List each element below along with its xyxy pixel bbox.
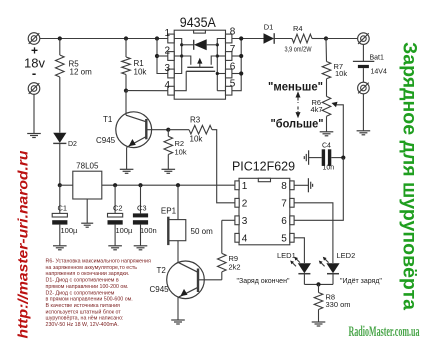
resistor R4 (292, 34, 326, 43)
label Bat1 (370, 55, 385, 62)
node source bus (155, 36, 159, 40)
node internal source diode (180, 43, 183, 46)
svg-text:T2: T2 (157, 266, 167, 275)
svg-text:8: 8 (230, 27, 236, 38)
wire pin8 ground (294, 184, 308, 186)
svg-text:LED2: LED2 (337, 251, 356, 260)
node internal source fet (180, 54, 183, 57)
wire pin5 to LED1 (294, 238, 304, 263)
wire T2 emitter to ground (177, 297, 179, 320)
svg-text:100µ: 100µ (61, 226, 79, 235)
svg-text:10n: 10n (323, 165, 335, 172)
label LED1 (277, 251, 296, 260)
wire led rail (304, 283, 333, 285)
svg-text:LED1: LED1 (277, 251, 296, 260)
node internal drain pin6 (216, 72, 219, 75)
wire drain bus (232, 39, 264, 91)
svg-text:C945: C945 (96, 136, 116, 145)
wire +5V rail (102, 184, 235, 186)
svg-text:C945: C945 (150, 285, 170, 294)
svg-text:RadioMaster.com.ua: RadioMaster.com.ua (349, 324, 420, 340)
label C2 value (116, 226, 134, 235)
node drain pin8 (239, 36, 243, 40)
ground R8 (312, 322, 326, 326)
svg-text:100n: 100n (140, 226, 157, 235)
transistor T1 (116, 112, 152, 148)
node R5 top (58, 36, 62, 40)
label idyot zaryad (340, 278, 382, 285)
diode D1 (264, 33, 293, 44)
node drain pin7 (239, 54, 243, 58)
ground C4 sideways (304, 150, 308, 165)
label R4 (293, 24, 303, 33)
svg-text:PIC12F629: PIC12F629 (232, 159, 295, 174)
svg-text:C4: C4 (322, 143, 331, 150)
output terminal bottom (358, 82, 370, 94)
resistor R2 (164, 130, 173, 170)
svg-text:D2- Диод с сопротивлением: D2- Диод с сопротивлением (46, 290, 115, 296)
svg-text:10k: 10k (175, 148, 187, 157)
label EP1 (161, 207, 177, 216)
wire T1 collector (125, 91, 127, 116)
label EP1 value (191, 227, 214, 236)
resistor R8 (314, 284, 323, 322)
svg-text:14V4: 14V4 (371, 69, 387, 76)
svg-text:230V-50 Hz 18 W, 12V-400mA.: 230V-50 Hz 18 W, 12V-400mA. (46, 322, 119, 328)
svg-text:на заряженном аккумуляторе,то: на заряженном аккумуляторе,то есть (46, 265, 138, 271)
ic PIC12F629 body (239, 178, 290, 245)
svg-text:T1: T1 (103, 115, 113, 124)
label R3 (190, 116, 204, 144)
node led rail (316, 282, 320, 286)
svg-text:2k2: 2k2 (229, 263, 241, 272)
node C3 (138, 183, 142, 187)
mosfet symbol 9435A (182, 56, 218, 71)
node internal drain diode (216, 43, 219, 46)
pin 5 PIC (281, 233, 294, 244)
resistor R6 potentiometer (322, 96, 331, 131)
label C1 value (61, 226, 79, 235)
label PIC12F629 (232, 159, 295, 174)
svg-text:7: 7 (230, 44, 236, 55)
title text (399, 42, 420, 310)
pin 6 PIC (281, 216, 294, 227)
node 78L05 input (58, 183, 62, 187)
wire 9435A source rail (174, 39, 182, 74)
svg-text:"Заряд окончен": "Заряд окончен" (237, 278, 290, 285)
ground pin8 sideways (308, 178, 312, 192)
transistor T2 (167, 261, 205, 299)
logo RadioMaster (349, 324, 420, 340)
label T2 (157, 266, 167, 275)
wire 9435A gate (174, 71, 186, 90)
input terminal - (18v) (28, 83, 40, 95)
ground input minus (27, 134, 41, 138)
label bolshe (271, 119, 324, 131)
wire T1 emitter to ground (126, 147, 128, 169)
body diode 9435A (182, 39, 218, 50)
label LED2 (337, 251, 356, 260)
svg-text:7: 7 (281, 198, 287, 209)
battery Bat1 (353, 61, 374, 68)
wire T1 base (146, 129, 168, 131)
svg-text:шуруповёрта, на нём написано:: шуруповёрта, на нём написано: (46, 316, 124, 322)
svg-text:4: 4 (164, 80, 170, 91)
pin 4 PIC (235, 233, 248, 244)
pin 2 9435A (164, 45, 174, 60)
label T1 (103, 115, 113, 124)
svg-text:напряжения о окончании зарядки: напряжения о окончании зарядки. (46, 271, 130, 277)
capacitor C1 (52, 185, 67, 246)
svg-text:Зарядное для шуруповёрта: Зарядное для шуруповёрта (399, 42, 420, 310)
svg-text:50 om: 50 om (191, 227, 214, 236)
svg-text:8: 8 (281, 181, 287, 192)
label D2 (68, 141, 77, 148)
label T2 type (150, 285, 170, 294)
svg-text:9435A: 9435A (180, 14, 217, 30)
url text (16, 150, 31, 339)
led LED2 (319, 257, 340, 285)
pin 7 9435A (226, 44, 236, 60)
label 18v (24, 56, 45, 71)
svg-text:10k: 10k (134, 68, 148, 77)
pin 1 9435A (164, 28, 174, 43)
wire 78L05 ground (86, 199, 88, 223)
wire to Bat1 (326, 38, 358, 40)
wire +18V rail (40, 38, 168, 40)
pin 5 9435A (226, 79, 236, 95)
wiper R6 (332, 102, 344, 158)
svg-text:http://master-uri.narod.ru: http://master-uri.narod.ru (16, 150, 31, 339)
svg-text:2: 2 (164, 45, 170, 56)
svg-text:3: 3 (164, 63, 170, 74)
label C1 (58, 204, 68, 213)
node internal drain fet (216, 54, 219, 57)
wire wiper to pin6 (294, 158, 343, 221)
input terminal + (18v) (28, 33, 40, 45)
svg-text:R4: R4 (293, 24, 303, 33)
svg-text:в прямом направлении 500-600 о: в прямом направлении 500-600 ом. (46, 297, 133, 303)
svg-text:R3: R3 (190, 116, 201, 125)
wire terminal to Bat1 (362, 44, 364, 61)
svg-text:"меньше": "меньше" (268, 82, 323, 94)
ground 78L05 (81, 223, 93, 227)
svg-text:EP1: EP1 (161, 207, 177, 216)
ground C2 (108, 246, 122, 250)
diode D2 (53, 133, 66, 185)
svg-text:C2: C2 (113, 204, 123, 213)
resistor R1 (122, 39, 131, 91)
label R9 (229, 254, 241, 272)
node R4 out (324, 36, 328, 40)
svg-text:330 om: 330 om (326, 300, 351, 309)
wire EP1 to T2 (177, 241, 179, 263)
pin 3 PIC (235, 216, 248, 227)
svg-text:D1- Диод с сопротивлением в: D1- Диод с сопротивлением в (46, 278, 119, 284)
label R2 (175, 139, 187, 157)
wire to 78L05 input (60, 184, 73, 186)
capacitor C4 (309, 149, 344, 166)
label R4 value (285, 47, 312, 54)
pin 8 9435A (226, 27, 236, 43)
label R1 (134, 59, 148, 77)
label C4 (322, 143, 331, 150)
svg-text:2: 2 (242, 198, 248, 209)
ground T2 (171, 320, 185, 324)
pin 2 PIC (235, 198, 248, 209)
label - (32, 66, 36, 81)
capacitor C3 (133, 185, 148, 246)
label menshe (268, 82, 323, 94)
pin 6 9435A (226, 62, 236, 78)
arrow down (296, 107, 301, 119)
capacitor C2 (108, 185, 123, 246)
note text block (46, 259, 151, 329)
label 78L05 (76, 162, 99, 171)
resistor R9 (218, 220, 235, 279)
label 14V4 (371, 69, 387, 76)
svg-text:78L05: 78L05 (76, 162, 99, 171)
svg-text:D2: D2 (68, 141, 77, 148)
pin 7 PIC (281, 198, 294, 209)
svg-text:-: - (32, 66, 36, 81)
svg-text:4k7: 4k7 (311, 105, 323, 114)
pin 3 9435A (164, 63, 174, 78)
svg-text:3,9 om/2W: 3,9 om/2W (285, 47, 312, 54)
pin 4 9435A (164, 80, 174, 95)
wire input minus to ground (33, 94, 35, 133)
wire Bat1 to terminal (362, 68, 364, 82)
svg-text:10k: 10k (335, 69, 347, 78)
svg-text:Bat1: Bat1 (370, 55, 385, 62)
wire source bus (157, 39, 168, 74)
ic 9435A body (174, 30, 225, 99)
svg-text:используется штатный блок от: используется штатный блок от (46, 308, 122, 315)
label C2 (113, 204, 123, 213)
label R6 (311, 98, 323, 114)
pin 1 PIC (235, 181, 248, 192)
svg-text:6: 6 (230, 62, 236, 73)
label C3 value (140, 226, 157, 235)
svg-text:4: 4 (242, 233, 248, 244)
pin 8 PIC (281, 181, 294, 192)
svg-text:D1: D1 (264, 23, 274, 32)
element EP1 (168, 217, 185, 245)
node EP1 (176, 183, 180, 187)
wire T2 base (198, 279, 222, 281)
svg-text:10k: 10k (190, 135, 204, 144)
label zaryad okonchen (237, 278, 290, 285)
svg-text:"больше": "больше" (271, 119, 324, 131)
regulator 78L05 (73, 171, 102, 199)
svg-text:C3: C3 (137, 204, 147, 213)
svg-text:5: 5 (230, 79, 236, 90)
label + (31, 44, 38, 58)
arrow up (296, 91, 301, 103)
label R8 (326, 293, 351, 310)
svg-text:"Идёт заряд": "Идёт заряд" (340, 278, 382, 285)
label C3 (137, 204, 147, 213)
svg-text:В качестве источника питания: В качестве источника питания (46, 303, 121, 309)
svg-text:6: 6 (281, 216, 287, 227)
svg-text:5: 5 (281, 233, 287, 244)
wire terminal to ground (362, 94, 364, 131)
ground C1 (53, 246, 67, 250)
wire gate (126, 90, 168, 92)
resistor R7 (322, 39, 331, 97)
label T1 type (96, 136, 116, 145)
svg-text:R6- Установка максимального на: R6- Установка максимального напряжения (46, 259, 151, 265)
ground Bat1 (357, 131, 371, 135)
resistor R3 (168, 125, 235, 202)
svg-text:1: 1 (164, 28, 170, 39)
svg-text:12 om: 12 om (70, 68, 93, 77)
ground C3 (134, 246, 148, 250)
svg-text:1: 1 (242, 181, 248, 192)
node gate (124, 89, 128, 93)
wire bus to pin2 (157, 55, 168, 57)
ground R2 (162, 169, 176, 173)
resistor R5 (56, 39, 65, 133)
node R1 top (124, 36, 128, 40)
label R7 (334, 62, 348, 78)
node C2 (113, 183, 117, 187)
node drain pin6 (239, 71, 243, 75)
wire pin7 to LED2 (294, 203, 333, 263)
wire EP1 top (177, 185, 179, 219)
node T1 base (166, 128, 170, 132)
led LED1 (290, 257, 311, 285)
wire 9435A drain rail (217, 39, 225, 91)
ground T1 (120, 169, 134, 173)
node C4 (341, 156, 345, 160)
label C4 value (323, 165, 335, 172)
label 9435A (180, 14, 217, 30)
svg-text:100µ: 100µ (116, 226, 134, 235)
svg-text:C1: C1 (58, 204, 68, 213)
svg-text:3: 3 (242, 216, 248, 227)
svg-text:прямом направлении 100-200 ом.: прямом направлении 100-200 ом. (46, 284, 129, 290)
node source bus pin2 (155, 54, 159, 58)
label D1 (264, 23, 274, 32)
output terminal top (358, 33, 370, 45)
label R5 (69, 60, 93, 77)
ground R6 (320, 132, 334, 136)
